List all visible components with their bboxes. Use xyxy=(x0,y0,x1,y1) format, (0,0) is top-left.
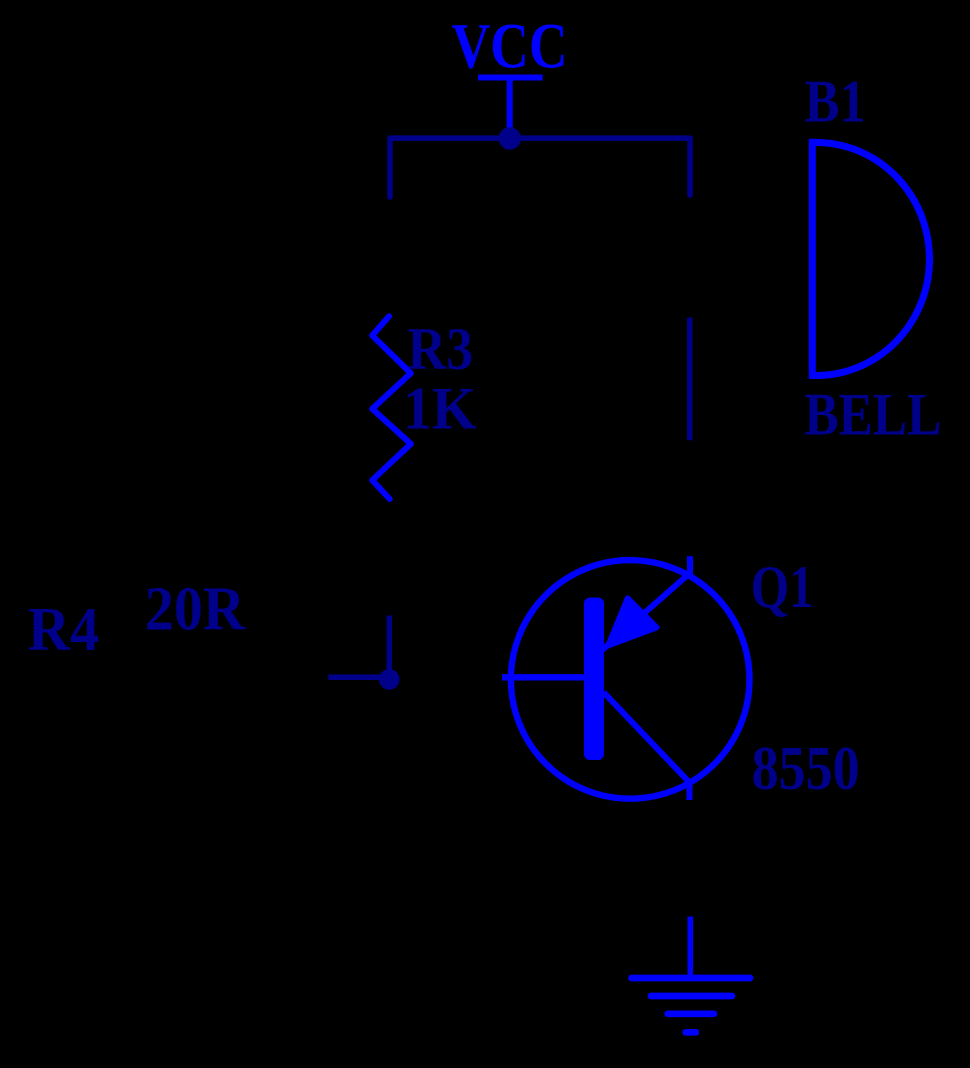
bell B1 dome arc xyxy=(816,143,929,376)
ground bar 2 xyxy=(651,993,732,1000)
resistor R3 xyxy=(372,316,411,499)
ground bar 1 xyxy=(632,975,751,982)
svg-text:1K: 1K xyxy=(403,376,477,442)
svg-text:R4: R4 xyxy=(28,596,100,664)
transistor Q1 emitter lead xyxy=(603,556,691,650)
ground bar 4 xyxy=(686,1029,696,1036)
svg-text:20R: 20R xyxy=(145,576,246,644)
power symbol VCC bar xyxy=(478,75,543,81)
junction node at base xyxy=(379,669,400,690)
junction node at VCC xyxy=(499,127,521,149)
transistor Q1 emitter arrowhead xyxy=(608,598,657,646)
wire bell branch xyxy=(687,318,693,441)
transistor Q1 base bar xyxy=(584,598,604,761)
power symbol VCC stub xyxy=(507,79,513,138)
transistor Q1 base lead xyxy=(502,674,588,680)
svg-text:VCC: VCC xyxy=(452,10,568,82)
svg-text:8550: 8550 xyxy=(752,735,860,803)
ground bar 3 xyxy=(668,1010,714,1017)
svg-text:Q1: Q1 xyxy=(751,554,814,620)
transistor Q1 circle xyxy=(511,560,750,799)
bell B1 body line xyxy=(809,139,816,379)
svg-text:R3: R3 xyxy=(407,316,473,382)
wire stub below R3 xyxy=(387,616,393,678)
ground stem xyxy=(687,917,693,976)
svg-text:BELL: BELL xyxy=(804,382,941,448)
transistor Q1 collector lead xyxy=(604,692,690,800)
svg-text:B1: B1 xyxy=(805,69,866,135)
wire top rail xyxy=(390,138,690,197)
wire to base node xyxy=(328,674,389,680)
